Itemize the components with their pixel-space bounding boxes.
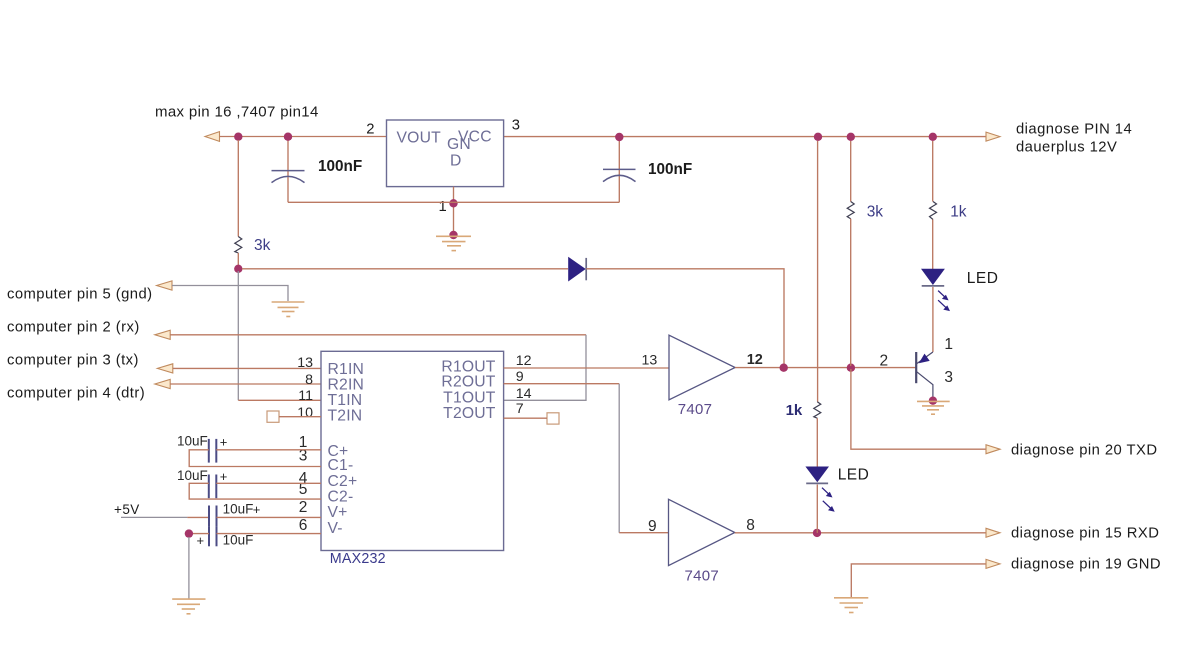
wire R2OUT loop to buffer input (619, 532, 668, 534)
ground at transistor (917, 401, 950, 414)
svg-text:diagnose pin 15 RXD: diagnose pin 15 RXD (1011, 526, 1159, 542)
capacitor C1 100nF plates (272, 171, 305, 183)
wire from junction down to T1IN (237, 271, 239, 400)
svg-text:T1IN: T1IN (328, 392, 363, 409)
svg-text:6: 6 (299, 517, 308, 534)
wire C5 right plate to V+ pin2 (217, 516, 322, 518)
svg-text:diagnose pin 19 GND: diagnose pin 19 GND (1011, 557, 1161, 573)
buffer U3A 7407 triangle (669, 335, 735, 400)
svg-text:11: 11 (298, 388, 313, 404)
svg-text:100nF: 100nF (318, 158, 362, 175)
resistor R3 1k lead from rail (932, 141, 934, 202)
svg-text:10uF: 10uF (223, 533, 254, 548)
svg-text:2: 2 (880, 353, 889, 370)
wire T2OUT stub (504, 417, 547, 419)
LED D2 cathode bar (922, 285, 945, 287)
diode D1 cathode bar (585, 258, 587, 280)
wire 12V rail left of regulator (220, 136, 387, 138)
wire C3 left plate loop to C1- pin3 (189, 450, 321, 467)
node junction transistor emitter at ground (929, 397, 937, 405)
capacitor C4 10uF plates (209, 475, 217, 499)
wire C3 right plate to C+ pin1 (216, 449, 321, 451)
svg-text:10uF: 10uF (177, 434, 208, 449)
LED D3 cathode bar (806, 482, 828, 484)
wire regulator pin 1 down (453, 187, 455, 235)
svg-text:12: 12 (516, 353, 532, 369)
wire R2OUT loop to lower 7407 input (504, 383, 620, 385)
connector arrow computer pin 3 tx (157, 364, 172, 373)
stub square T2OUT pin 7 (547, 413, 559, 424)
node junction at ground under regulator (449, 231, 457, 239)
regulator U2 box (387, 120, 504, 187)
node junction rail at 1k LED1 branch (929, 133, 937, 141)
svg-text:+: + (197, 533, 205, 548)
ground at computer pin 5 (272, 302, 305, 317)
svg-text:10: 10 (297, 405, 313, 421)
svg-text:VCC: VCC (458, 129, 492, 146)
svg-text:10uF: 10uF (177, 468, 208, 483)
svg-text:8: 8 (746, 517, 755, 534)
connector arrow computer pin 4 dtr (155, 379, 170, 388)
svg-text:+5V: +5V (114, 502, 140, 517)
stub square T2IN pin 10 (267, 411, 279, 422)
resistor R2 3k lead bottom (850, 219, 852, 366)
wire connecting C1 and C2 bottoms to pin1 node (288, 201, 619, 203)
svg-text:14: 14 (516, 386, 532, 402)
wire diode cathode to 7407 output node (586, 269, 784, 366)
resistor R2 3k body (847, 202, 854, 219)
node junction LED2 on RXD line (813, 529, 821, 537)
svg-text:C2-: C2- (328, 489, 354, 506)
connector arrow computer pin 5 (157, 281, 172, 290)
connector arrow diagnose pin 15 RXD (986, 528, 1000, 537)
resistor R3 1k body (930, 202, 937, 220)
capacitor C6 10uF plates (209, 526, 217, 546)
wire rx loop vertical to T1OUT (504, 335, 586, 401)
svg-text:T1OUT: T1OUT (443, 389, 496, 406)
wire TXD branch down and right (851, 369, 986, 449)
ground under regulator (436, 236, 471, 250)
wire R1OUT to 7407 input (504, 367, 669, 369)
svg-text:12: 12 (747, 352, 763, 368)
transistor Q1 arrow (919, 354, 930, 364)
wire GND diagnose (851, 564, 986, 597)
diode D1 body (568, 257, 586, 282)
svg-text:computer pin 3 (tx): computer pin 3 (tx) (7, 353, 139, 369)
svg-text:7407: 7407 (685, 568, 720, 585)
node junction rail at LED2 branch (814, 133, 822, 141)
wire tx to R1IN (173, 367, 321, 369)
transistor Q1 collector lead (917, 352, 933, 364)
svg-text:D: D (450, 153, 462, 170)
capacitor C2 100nF lead top (618, 141, 620, 202)
wire C4 right plate to C2+ pin4 (216, 482, 321, 484)
wire C6 left plate to ground junction (189, 533, 209, 535)
node junction rail at 3k (234, 133, 242, 141)
svg-text:3: 3 (944, 369, 953, 386)
wire junction down to ground (188, 537, 190, 599)
svg-text:LED: LED (838, 467, 870, 484)
svg-text:V-: V- (328, 520, 343, 537)
svg-text:R2IN: R2IN (328, 377, 365, 394)
svg-text:MAX232: MAX232 (330, 551, 386, 567)
svg-text:13: 13 (642, 352, 658, 368)
capacitor C3 10uF plates (209, 439, 217, 463)
IC U1 MAX232 box (321, 351, 504, 550)
node junction regulator pin1 (449, 199, 457, 207)
svg-text:C1-: C1- (328, 457, 354, 474)
node junction diode loop on output (780, 364, 788, 372)
svg-text:dauerplus 12V: dauerplus 12V (1016, 140, 1117, 156)
svg-text:3: 3 (512, 118, 521, 134)
node junction 3k bottom / T1IN / diode (234, 265, 242, 273)
ground at diagnose pin 19 (834, 598, 868, 613)
resistor R4 1k lead from rail (817, 141, 819, 402)
svg-text:+: + (220, 435, 228, 450)
buffer U3B 7407 triangle (669, 499, 735, 565)
LED D2 body (921, 269, 945, 285)
wire LED D2 cathode to transistor collector (932, 287, 934, 352)
svg-text:max pin 16 ,7407 pin14: max pin 16 ,7407 pin14 (155, 104, 319, 121)
resistor R1 3k lead top (237, 140, 239, 237)
svg-text:8: 8 (305, 372, 313, 388)
svg-text:10uF: 10uF (223, 502, 254, 517)
wire dtr to R2IN (170, 383, 321, 385)
resistor R1 3k lead bottom (237, 253, 239, 266)
svg-text:9: 9 (516, 369, 524, 385)
resistor R4 1k lead bottom (816, 418, 818, 467)
svg-text:13: 13 (297, 355, 313, 371)
svg-text:7: 7 (516, 401, 524, 417)
wire +5V supply (121, 516, 187, 518)
wire 7407 output to transistor base (735, 367, 916, 369)
resistor R1 3k body (235, 237, 242, 254)
svg-text:1k: 1k (786, 402, 803, 419)
wire junction to diode anode (242, 268, 568, 270)
node junction V- cap to ground (185, 529, 193, 537)
svg-text:R2OUT: R2OUT (441, 374, 495, 391)
node junction rail at 3k pullup (847, 133, 855, 141)
capacitor C2 100nF plates (603, 169, 636, 181)
node junction 3k pullup / TXD branch (847, 364, 855, 372)
svg-text:VOUT: VOUT (397, 130, 442, 147)
svg-text:LED: LED (967, 270, 999, 287)
capacitor C1 100nF lead top (287, 140, 289, 202)
node junction rail at C2 (615, 133, 623, 141)
svg-text:C2+: C2+ (328, 473, 358, 490)
svg-text:1: 1 (944, 336, 953, 353)
LED D2 emission arrows (938, 291, 950, 312)
svg-text:1k: 1k (950, 204, 967, 221)
svg-text:T2IN: T2IN (328, 408, 363, 425)
svg-text:+: + (220, 469, 228, 484)
connector arrow computer pin 2 rx (155, 330, 170, 339)
connector arrow diagnose pin 20 TXD (986, 445, 1000, 454)
svg-text:3k: 3k (254, 237, 271, 254)
wire C6 right plate to V- pin6 (217, 533, 322, 535)
resistor R3 1k lead bottom (932, 220, 934, 270)
wire computer pin 5 to ground (172, 286, 288, 302)
node junction rail at C1 (284, 133, 292, 141)
wire 7407 B output to RXD (735, 532, 986, 534)
resistor R4 1k body (814, 402, 821, 419)
svg-text:7407: 7407 (678, 401, 713, 418)
wire rx to T1OUT loop (170, 334, 586, 336)
svg-text:1: 1 (439, 199, 448, 215)
wire T2IN stub (279, 416, 321, 418)
svg-text:computer pin 5 (gnd): computer pin 5 (gnd) (7, 287, 153, 303)
ground lower left (172, 599, 205, 614)
LED D3 emission arrows (822, 488, 835, 512)
svg-text:diagnose PIN 14: diagnose PIN 14 (1016, 122, 1132, 138)
svg-text:2: 2 (299, 499, 308, 516)
connector arrow diagnose PIN 14 (right) (986, 132, 1000, 141)
svg-text:computer pin 4 (dtr): computer pin 4 (dtr) (7, 386, 145, 402)
LED D3 body (805, 467, 829, 483)
connector arrow to max pin16 (left, 12V rail) (205, 132, 220, 142)
capacitor C5 10uF plates (209, 506, 217, 527)
wire LED D3 cathode to RXD junction (816, 485, 818, 533)
svg-text:diagnose pin 20 TXD: diagnose pin 20 TXD (1011, 443, 1157, 459)
transistor Q1 base bar (915, 352, 917, 383)
svg-text:V+: V+ (328, 504, 348, 521)
wire R2OUT loop vertical (618, 384, 620, 533)
svg-text:9: 9 (648, 518, 657, 535)
wire C4 left plate loop to C2- pin5 (189, 483, 321, 499)
svg-text:T2OUT: T2OUT (443, 405, 496, 422)
transistor Q1 emitter lead (917, 372, 933, 398)
resistor R2 3k pullup lead from rail (850, 141, 852, 202)
svg-text:computer pin 2 (rx): computer pin 2 (rx) (7, 319, 140, 335)
svg-text:3k: 3k (867, 204, 884, 221)
wire 12V rail right of regulator (504, 136, 986, 138)
connector arrow diagnose pin 19 GND (986, 559, 1000, 568)
svg-text:+: + (253, 502, 261, 517)
svg-text:100nF: 100nF (648, 161, 692, 178)
svg-text:2: 2 (366, 122, 375, 138)
svg-text:R1IN: R1IN (328, 361, 365, 378)
